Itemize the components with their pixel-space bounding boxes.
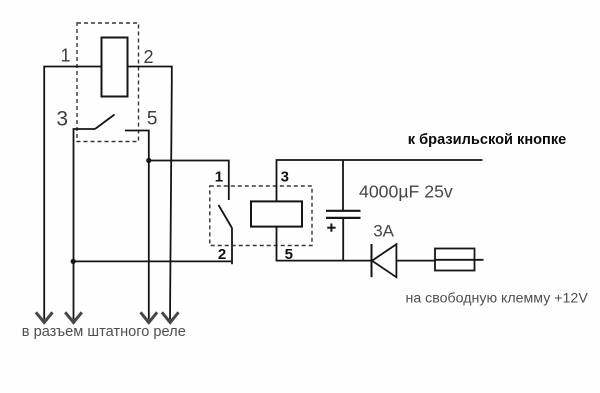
arrow: K1 pin2 <box>162 312 179 322</box>
wire: K2 pin 5 down to bottom-right rail <box>277 227 372 261</box>
capacitor C1 bottom lead <box>342 218 344 261</box>
fuse FU1 body <box>435 249 475 271</box>
relay K2 switch blade <box>219 205 233 228</box>
junction node: K1 pin3 to bottom rail <box>71 259 76 264</box>
relay K1 switch blade <box>95 115 115 130</box>
wire: K1 coil right to pin2 drop <box>128 67 172 320</box>
arrow: K1 pin5 <box>141 312 158 322</box>
wire: K2 pin 3 up to top rail, rail to right <box>277 160 483 201</box>
capacitor C1 polarity plus <box>327 224 335 232</box>
svg-text:1: 1 <box>215 168 223 185</box>
svg-text:3: 3 <box>56 108 68 131</box>
svg-text:2: 2 <box>218 246 226 263</box>
wire: diode to fuse <box>396 260 435 262</box>
svg-text:в разъем штатного реле: в разъем штатного реле <box>22 324 186 340</box>
wire: junction to relay K2 pin 1 <box>149 161 229 201</box>
relay K1 switch left contact (pin 3) <box>74 129 96 320</box>
relay K1 coil <box>102 38 128 97</box>
svg-text:5: 5 <box>147 108 158 129</box>
relay K2 coil <box>251 201 302 226</box>
wire: K1 pin1 to coil left <box>44 67 101 320</box>
svg-text:1: 1 <box>61 46 71 66</box>
capacitor C1 top plate <box>326 210 361 212</box>
arrow: K1 pin3 <box>65 312 82 322</box>
arrow: K1 pin1 to standard relay socket <box>36 312 53 322</box>
junction node: K1 pin5 to K2 pin1 <box>146 158 151 163</box>
svg-text:4000µF 25v: 4000µF 25v <box>359 181 453 201</box>
diode VD1 cathode bar <box>371 244 373 277</box>
svg-text:2: 2 <box>144 47 154 67</box>
svg-text:3А: 3А <box>373 222 394 241</box>
capacitor C1 bottom plate <box>326 217 361 219</box>
wire: K2 pin 2 lead down across rail <box>231 228 233 264</box>
wire: bottom rail left segment (to K2 pin 2) <box>73 260 232 262</box>
svg-text:к бразильской кнопке: к бразильской кнопке <box>408 132 567 148</box>
svg-text:на свободную клемму +12V: на свободную клемму +12V <box>406 291 589 307</box>
svg-text:3: 3 <box>281 168 289 185</box>
relay K2 dashed enclosure <box>210 186 312 246</box>
diode VD1 triangle <box>372 244 396 277</box>
capacitor C1 top lead <box>342 160 344 211</box>
wire: fuse through-line and right lead <box>435 259 484 261</box>
relay K1 dashed enclosure <box>77 23 139 142</box>
relay K1 switch right contact (pin 5) <box>125 131 149 320</box>
